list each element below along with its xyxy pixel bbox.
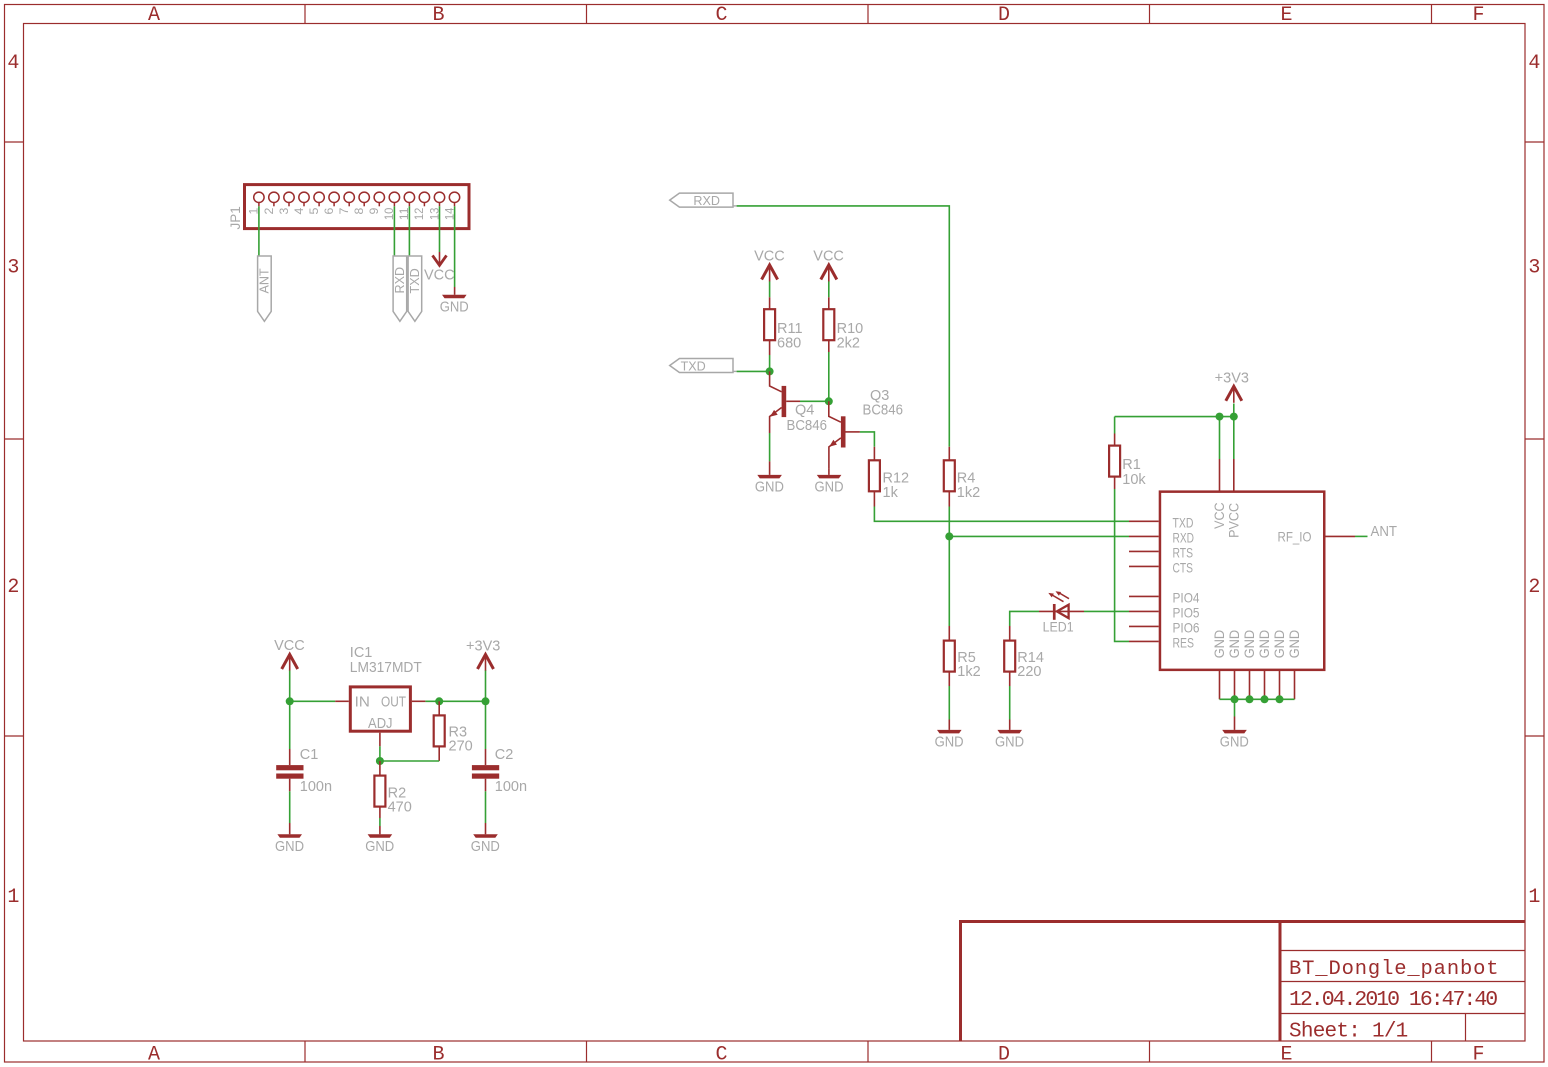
frame column label F top <box>1472 4 1484 27</box>
connector JP1 pin 4 <box>299 192 309 206</box>
JP1 pin number 12 <box>412 207 426 220</box>
svg-text:B: B <box>432 1044 444 1067</box>
module pin GND1 <box>1219 671 1221 699</box>
svg-text:4: 4 <box>1528 52 1540 75</box>
label GND below C1 <box>275 839 304 855</box>
svg-text:GND: GND <box>935 734 964 750</box>
resistor R14 <box>1004 626 1015 686</box>
svg-text:1: 1 <box>1528 886 1540 909</box>
wire Q3 collector to R12 <box>860 432 875 447</box>
label C1 <box>300 747 319 763</box>
module pin name PIO4 <box>1173 590 1200 605</box>
frame row label 2 left <box>7 576 19 599</box>
svg-text:PIO6: PIO6 <box>1173 620 1200 635</box>
svg-text:D: D <box>998 4 1010 27</box>
value 270 of R3 <box>449 739 473 755</box>
svg-text:GND: GND <box>1257 630 1272 659</box>
module pin GND6 <box>1294 671 1296 699</box>
svg-text:1k: 1k <box>883 485 899 501</box>
svg-text:GND: GND <box>1212 630 1227 659</box>
label Q4 <box>795 403 814 419</box>
svg-text:VCC: VCC <box>1212 502 1227 529</box>
module pin name RTS <box>1173 545 1194 560</box>
label R14 <box>1017 650 1044 666</box>
regulator IC1 body <box>350 687 410 731</box>
connector JP1 pin 2 <box>269 192 279 206</box>
svg-text:RTS: RTS <box>1173 545 1194 560</box>
svg-text:VCC: VCC <box>813 248 844 264</box>
capacitor C1 <box>276 765 303 834</box>
svg-text:GND: GND <box>815 479 844 495</box>
svg-text:BT_Dongle_panbot: BT_Dongle_panbot <box>1289 958 1499 981</box>
ground symbol below R5 <box>937 720 962 734</box>
JP1 pin number 10 <box>382 207 396 220</box>
wire RF_IO to ANT <box>1355 535 1368 537</box>
connector JP1 pin 9 <box>374 192 384 206</box>
title block row lines <box>1282 951 1526 1042</box>
module pin GND3 <box>1249 671 1251 699</box>
module pin PIO6 <box>1129 625 1159 627</box>
connector JP1 pin 12 <box>419 192 429 206</box>
connector JP1 pin 7 <box>344 192 354 206</box>
module pin RTS <box>1129 550 1159 552</box>
label VCC at JP1 <box>424 268 455 284</box>
svg-text:3: 3 <box>7 257 19 280</box>
connector JP1 pin 13 <box>434 192 444 206</box>
svg-text:12.04.2010 16:47:40: 12.04.2010 16:47:40 <box>1289 988 1497 1012</box>
svg-text:2: 2 <box>7 576 19 599</box>
JP1 pin number 14 <box>442 207 456 220</box>
frame column label A top <box>148 4 160 27</box>
value 220 of R14 <box>1017 664 1041 680</box>
svg-text:VCC: VCC <box>274 638 305 654</box>
transistor Q3 <box>829 401 860 468</box>
svg-text:Q4: Q4 <box>795 403 814 419</box>
wire VCC to R10 <box>828 281 830 309</box>
svg-text:TXD: TXD <box>681 359 706 373</box>
resistor R4 <box>944 447 955 507</box>
wire Q4 base to node <box>800 400 829 402</box>
svg-text:A: A <box>148 4 160 27</box>
label GND below C2 <box>471 839 500 855</box>
module pin name PIO6 <box>1173 620 1200 635</box>
resistor R10 <box>823 309 834 352</box>
module pin GND4 <box>1264 671 1266 699</box>
net flag TXD at JP1 <box>408 256 422 321</box>
JP1 pin number 8 <box>352 207 366 214</box>
frame row label 3 right <box>1528 257 1540 280</box>
connector JP1 pin 5 <box>314 192 324 206</box>
wire TXD flag to node <box>737 370 770 372</box>
label R10 <box>837 321 864 337</box>
module pin GND5 <box>1279 671 1281 699</box>
svg-text:RES: RES <box>1173 635 1195 650</box>
svg-text:2: 2 <box>262 207 276 214</box>
svg-text:C1: C1 <box>300 747 319 763</box>
wire RXD flag to R4 <box>737 206 950 447</box>
wire GND bus below module <box>1220 699 1295 716</box>
junction R3 top node <box>435 697 443 705</box>
value 100n of C2 <box>495 779 527 795</box>
connector JP1 label <box>228 206 243 229</box>
svg-text:470: 470 <box>388 799 412 815</box>
module pin name GND3 <box>1242 630 1257 659</box>
label R12 <box>883 471 910 487</box>
label BC846 of Q3 <box>863 403 904 419</box>
svg-text:ANT: ANT <box>258 268 272 293</box>
svg-text:GND: GND <box>755 479 784 495</box>
wire node to R5 <box>948 536 950 626</box>
power symbol +3V3 above C2 <box>478 655 494 672</box>
label IC1 <box>350 645 373 661</box>
svg-text:2: 2 <box>1528 576 1540 599</box>
value 1k2 of R5 <box>957 664 980 680</box>
resistor R5 <box>944 626 955 686</box>
connector JP1 pin 6 <box>329 192 339 206</box>
label C2 <box>495 747 514 763</box>
frame column label C top <box>715 4 727 27</box>
pin label IN <box>355 694 370 711</box>
wire VCC to R11 <box>769 281 771 309</box>
module pin name CTS <box>1173 560 1194 575</box>
frame row divider ticks <box>5 142 1544 736</box>
wire JP1 pin1 to ANT flag <box>258 206 260 256</box>
label BC846 of Q4 <box>787 418 828 434</box>
connector JP1 pin 3 <box>284 192 294 206</box>
svg-text:7: 7 <box>337 207 351 214</box>
frame row label 4 right <box>1528 52 1540 75</box>
ground symbol below C2 <box>473 834 498 838</box>
junction PVCC corner node <box>1230 413 1238 421</box>
frame column label A bottom <box>148 1044 160 1067</box>
net flag RXD at JP1 <box>393 256 407 321</box>
module pin name GND2 <box>1227 630 1242 659</box>
svg-text:12: 12 <box>412 207 426 220</box>
frame column label B top <box>432 4 444 27</box>
svg-text:B: B <box>432 4 444 27</box>
svg-text:+3V3: +3V3 <box>1215 371 1249 387</box>
label Q3 <box>870 388 889 404</box>
svg-text:A: A <box>148 1044 160 1067</box>
wire R10 to Q4 base node <box>828 352 830 401</box>
label R11 <box>777 321 803 337</box>
wire R1 to module RES <box>1115 489 1129 641</box>
svg-text:4: 4 <box>7 52 19 75</box>
label VCC above R10 <box>813 248 844 264</box>
svg-text:LM317MDT: LM317MDT <box>350 660 422 676</box>
junction TXD node <box>766 367 774 375</box>
title block outline <box>959 920 1525 1041</box>
net flag TXD <box>670 359 737 374</box>
svg-text:4: 4 <box>292 207 306 214</box>
resistor R12 <box>869 447 880 507</box>
power symbol VCC above R10 <box>821 265 837 282</box>
capacitor C2 <box>472 765 499 834</box>
svg-text:JP1: JP1 <box>228 206 243 229</box>
svg-text:C2: C2 <box>495 747 514 763</box>
title text project name <box>1289 958 1499 981</box>
wire R5 to GND <box>948 686 950 720</box>
svg-text:680: 680 <box>777 336 801 352</box>
module pin name GND4 <box>1257 630 1272 659</box>
svg-text:LED1: LED1 <box>1043 619 1074 635</box>
label +3V3 above C2 <box>466 639 500 655</box>
module pin name RF_IO <box>1278 530 1312 545</box>
svg-text:RXD: RXD <box>1173 530 1195 545</box>
wire R11 to TXD node <box>769 355 771 371</box>
module pin name PVCC <box>1227 503 1242 538</box>
wire R14 to GND <box>1009 686 1011 720</box>
frame row label 1 left <box>7 886 19 909</box>
junction RXD divider node <box>945 532 953 540</box>
value 1k of R12 <box>883 485 899 501</box>
label GND below Q4 <box>755 479 784 495</box>
svg-text:GND: GND <box>1272 630 1287 659</box>
svg-text:9: 9 <box>367 207 381 214</box>
svg-text:GND: GND <box>275 839 304 855</box>
svg-text:BC846: BC846 <box>787 418 828 434</box>
resistor R3 <box>434 701 445 761</box>
led LED1 <box>1039 604 1084 620</box>
resistor R2 <box>374 761 385 834</box>
JP1 pin number 9 <box>367 207 381 214</box>
junction ADJ node <box>376 757 384 765</box>
connector JP1 pin 11 <box>404 192 414 206</box>
label LED1 <box>1043 619 1074 635</box>
module pin RES <box>1129 640 1159 642</box>
svg-text:GND: GND <box>995 734 1024 750</box>
label GND below R2 <box>365 839 394 855</box>
module pin TXD <box>1129 520 1159 522</box>
label R4 <box>957 471 976 487</box>
value 10k of R1 <box>1122 472 1146 488</box>
wire node to IC1 IN <box>290 700 349 702</box>
module pin RF_IO <box>1326 535 1356 537</box>
connector JP1 pin 8 <box>359 192 369 206</box>
frame column divider ticks <box>305 5 1432 1062</box>
svg-text:IN: IN <box>355 694 370 711</box>
power symbol VCC (down arrow) at JP1 <box>433 252 447 265</box>
junction GND bus node 1 <box>1231 695 1239 703</box>
svg-text:100n: 100n <box>495 779 527 795</box>
svg-text:F: F <box>1472 4 1484 27</box>
svg-text:GND: GND <box>1220 734 1249 750</box>
svg-text:5: 5 <box>307 207 321 214</box>
frame column label D top <box>998 4 1010 27</box>
module pin GND2 <box>1234 671 1236 699</box>
wire LED1 to R14 <box>1010 611 1039 626</box>
power symbol +3V3 above module <box>1226 386 1242 403</box>
resistor R11 <box>764 309 775 355</box>
svg-text:ADJ: ADJ <box>368 715 393 732</box>
value 680 of R11 <box>777 336 801 352</box>
module pin PIO5 <box>1129 610 1159 612</box>
wire IC1 OUT to +3V3 <box>412 700 486 702</box>
junction IN node <box>286 697 294 705</box>
pin label ADJ <box>368 715 393 732</box>
label R5 <box>957 650 976 666</box>
label GND below JP1 <box>440 300 469 316</box>
svg-text:GND: GND <box>1287 630 1302 659</box>
pin label OUT <box>381 694 406 711</box>
svg-text:270: 270 <box>449 739 473 755</box>
svg-text:8: 8 <box>352 207 366 214</box>
connector JP1 pin 14 <box>449 192 459 206</box>
ground symbol below R2 <box>368 834 393 838</box>
connector JP1 pin 1 <box>254 192 264 206</box>
svg-text:GND: GND <box>1227 630 1242 659</box>
JP1 pin number 2 <box>262 207 276 214</box>
junction VCC pin node <box>1216 413 1224 421</box>
junction C2 node <box>482 697 490 705</box>
frame column label D bottom <box>998 1044 1010 1067</box>
module pin name PIO5 <box>1173 605 1200 620</box>
svg-text:GND: GND <box>440 300 469 316</box>
frame column label B bottom <box>432 1044 444 1067</box>
module U1 body <box>1160 492 1324 670</box>
wire R3 to ADJ node <box>380 760 439 762</box>
JP1 pin number 3 <box>277 207 291 214</box>
JP1 pin number 7 <box>337 207 351 214</box>
label net ANT <box>1371 524 1398 540</box>
svg-text:ANT: ANT <box>1371 524 1398 540</box>
wire R12 to module TXD <box>874 507 1129 522</box>
wire C2 branch <box>485 701 487 765</box>
svg-text:2k2: 2k2 <box>837 336 860 352</box>
title text date <box>1289 988 1497 1012</box>
svg-text:E: E <box>1280 1044 1292 1067</box>
module pin name GND6 <box>1287 630 1302 659</box>
value 100n of C1 <box>300 779 332 795</box>
svg-text:R1: R1 <box>1122 457 1141 473</box>
frame column label E bottom <box>1280 1044 1292 1067</box>
module pin CTS <box>1129 565 1159 567</box>
svg-text:F: F <box>1472 1044 1484 1067</box>
wire node to C1 <box>289 701 291 765</box>
label GND below R5 <box>935 734 964 750</box>
svg-text:1: 1 <box>7 886 19 909</box>
frame row label 1 right <box>1528 886 1540 909</box>
svg-text:TXD: TXD <box>408 268 422 293</box>
svg-text:220: 220 <box>1017 664 1041 680</box>
svg-text:PIO4: PIO4 <box>1173 590 1200 605</box>
power symbol VCC above R11 <box>762 265 778 282</box>
wire to module PVCC pin <box>1233 417 1235 491</box>
junction GND bus node 2 <box>1246 695 1254 703</box>
svg-text:TXD: TXD <box>1173 515 1194 530</box>
ground symbol below JP1 <box>442 295 467 299</box>
ground symbol below C1 <box>277 834 302 838</box>
connector JP1 pin 10 <box>389 192 399 206</box>
label GND below Q3 <box>815 479 844 495</box>
junction GND bus node 4 <box>1276 695 1284 703</box>
svg-text:+3V3: +3V3 <box>466 639 500 655</box>
svg-text:Sheet: 1/1: Sheet: 1/1 <box>1289 1020 1408 1043</box>
module pin RXD <box>1129 535 1159 537</box>
junction GND bus node 3 <box>1261 695 1269 703</box>
label R2 <box>388 785 407 801</box>
wire module PIO5 to LED1 <box>1084 610 1129 612</box>
svg-text:1k2: 1k2 <box>957 485 980 501</box>
svg-text:PVCC: PVCC <box>1227 503 1242 538</box>
frame row label 2 right <box>1528 576 1540 599</box>
svg-text:GND: GND <box>471 839 500 855</box>
svg-text:BC846: BC846 <box>863 403 904 419</box>
value 470 of R2 <box>388 799 412 815</box>
svg-text:D: D <box>998 1044 1010 1067</box>
label VCC above IC1 <box>274 638 305 654</box>
svg-text:GND: GND <box>1242 630 1257 659</box>
frame column label C bottom <box>715 1044 727 1067</box>
wire IC1 ADJ to node <box>379 733 381 761</box>
ground symbol below Q4 <box>757 433 782 478</box>
svg-text:C: C <box>715 4 727 27</box>
module pin name RXD <box>1173 530 1195 545</box>
label VCC above R11 <box>754 248 785 264</box>
connector JP1 body <box>245 185 470 229</box>
frame column label E top <box>1280 4 1292 27</box>
wire JP1 pin11 to TXD flag <box>408 206 410 256</box>
wire VCC to IN node <box>289 671 291 702</box>
resistor R1 <box>1109 417 1120 489</box>
ground symbol below module <box>1222 717 1247 734</box>
label LM317MDT <box>350 660 422 676</box>
net flag ANT <box>258 256 272 321</box>
svg-text:IC1: IC1 <box>350 645 373 661</box>
svg-text:RF_IO: RF_IO <box>1278 530 1312 545</box>
wire node to module RXD <box>949 535 1129 537</box>
svg-text:1k2: 1k2 <box>957 664 980 680</box>
svg-text:OUT: OUT <box>381 694 406 711</box>
svg-text:GND: GND <box>365 839 394 855</box>
wire R4 to RXD node <box>948 507 950 537</box>
value 2k2 of R10 <box>837 336 860 352</box>
frame row label 4 left <box>7 52 19 75</box>
JP1 pin number 4 <box>292 207 306 214</box>
svg-text:3: 3 <box>1528 257 1540 280</box>
module pin PIO4 <box>1129 595 1159 597</box>
JP1 pin number 5 <box>307 207 321 214</box>
svg-text:RXD: RXD <box>393 267 407 294</box>
net flag RXD <box>670 193 737 208</box>
label +3V3 above module <box>1215 371 1249 387</box>
ground symbol below R14 <box>997 720 1022 734</box>
module pin name RES <box>1173 635 1195 650</box>
module pin name VCC <box>1212 502 1227 529</box>
title text sheet number <box>1289 1020 1408 1043</box>
label R1 <box>1122 457 1141 473</box>
svg-text:VCC: VCC <box>424 268 455 284</box>
junction Q4 base node <box>825 397 833 405</box>
module pin name GND5 <box>1272 630 1287 659</box>
JP1 pin number 1 <box>247 207 261 214</box>
svg-text:PIO5: PIO5 <box>1173 605 1200 620</box>
label R3 <box>449 725 468 741</box>
label GND below module <box>1220 734 1249 750</box>
svg-text:3: 3 <box>277 207 291 214</box>
wire to module VCC pin <box>1219 417 1221 491</box>
JP1 pin number 11 <box>397 207 411 220</box>
transistor Q4 <box>770 371 800 433</box>
frame row label 3 left <box>7 257 19 280</box>
value 1k2 of R4 <box>957 485 980 501</box>
svg-text:RXD: RXD <box>693 194 720 208</box>
ground symbol below Q3 <box>817 469 842 479</box>
svg-text:CTS: CTS <box>1173 560 1194 575</box>
module pin name GND1 <box>1212 630 1227 659</box>
led LED1 emission arrows <box>1048 591 1069 601</box>
svg-text:VCC: VCC <box>754 248 785 264</box>
